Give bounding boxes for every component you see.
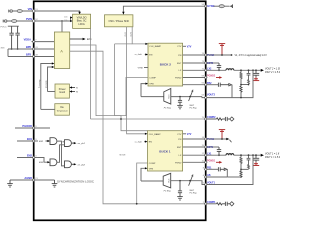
svg-text:EN2: EN2 (27, 153, 33, 157)
arrow g4 out (74, 163, 77, 165)
wire PVIN internal (34, 18, 72, 22)
trapezoid FC regulator ch1 (164, 89, 171, 105)
arrow g2 out (74, 142, 77, 144)
svg-text:Temperature: Temperature (56, 110, 68, 113)
svg-text:COMP1: COMP1 (207, 201, 216, 204)
wire ch2 FB row (206, 168, 218, 170)
arrow EN2 into gate (38, 158, 48, 163)
junction V1 text dot (231, 54, 233, 56)
svg-text:CLK2: CLK2 (131, 32, 133, 37)
junction C1/BP6 (11, 48, 13, 50)
wire RT1 (osc to buck2 clk) (127, 27, 146, 134)
arrow PG input 1 (69, 86, 72, 88)
svg-text:NiST: NiST (190, 105, 195, 107)
svg-text:V2: V2 (76, 91, 78, 93)
svg-text:en_ph1: en_ph1 (78, 143, 86, 145)
svg-text:VFB: VFB (149, 84, 154, 86)
wire ch2 PVIN ext (206, 138, 227, 140)
gate U5 AND (65, 161, 72, 168)
svg-text:VOUT 1 = 1.8 V: VOUT 1 = 1.8 V (265, 154, 280, 156)
ground Creg ch2 (177, 197, 183, 200)
junction sense (252, 69, 254, 71)
svg-text:Trimming: Trimming (39, 80, 41, 88)
wire PVIN down to block A (61, 21, 63, 32)
svg-text:PVIN: PVIN (26, 17, 32, 21)
power flag V1 ch1 (219, 44, 225, 55)
svg-text:COMP: COMP (149, 163, 156, 165)
wire ENx output (70, 38, 83, 40)
block Die Temperature (55, 104, 70, 116)
wire EN2 internal (34, 157, 38, 159)
capacitor Cfb ch1 (218, 83, 228, 87)
wire BST ext ch2 (206, 146, 219, 148)
wire PGOOD internal (34, 127, 50, 129)
ground Creg ch1 (177, 105, 183, 108)
ground left (7, 180, 13, 187)
wire divider bottom ch2 (227, 176, 241, 178)
svg-text:AGND: AGND (24, 176, 32, 180)
wire g2 second input (63, 141, 65, 143)
svg-text:SYNCHRONIZATION LOGIC: SYNCHRONIZATION LOGIC (57, 180, 94, 183)
svg-text:FC Reg: FC Reg (190, 193, 198, 195)
junction divider bottom ch2 (240, 176, 242, 178)
arrow into LDO left pin 1 (70, 16, 72, 18)
inductor L1 (226, 69, 234, 71)
junction tap (240, 84, 242, 86)
resistor divider R3 R4 ch2 (240, 155, 242, 177)
svg-text:CLK_RAMP: CLK_RAMP (149, 133, 161, 136)
svg-text:LX1: LX1 (207, 152, 212, 155)
wire die temp status to A (41, 64, 52, 110)
junction BST cap LX ch2 (218, 154, 220, 156)
power flag PGND down ch2 (253, 162, 259, 165)
wire cff tap join ch2 (241, 168, 249, 170)
svg-text:FC Reg: FC Reg (164, 191, 172, 193)
junction clk row (120, 118, 122, 120)
capacitor CBST2 (217, 147, 221, 155)
junction BST cap LX (218, 69, 220, 71)
svg-text:MODE: MODE (120, 155, 127, 157)
wire VDDA to block A (34, 41, 55, 43)
wire ch1 PVIN external (206, 54, 231, 56)
wire FB ext (206, 84, 218, 86)
arrow PGND red ch1 (216, 77, 220, 79)
junction divider bottom ch1 (240, 97, 242, 99)
wire trap out ch1 (171, 96, 202, 98)
svg-text:ss_fault: ss_fault (135, 53, 142, 56)
junction cap ch1 (179, 96, 181, 98)
svg-text:V7V: V7V (187, 45, 192, 48)
wire EN2 pin (17, 157, 34, 159)
wire BP3 (8, 56, 34, 58)
connector J1 pin (9, 10, 13, 13)
wire AGND internal (34, 179, 55, 181)
svg-text:ENx: ENx (87, 38, 92, 41)
junction divider (240, 69, 242, 71)
junction PVIN flag (221, 54, 223, 56)
arrow ch1 VFB (145, 83, 148, 85)
svg-text:FC Reg: FC Reg (190, 108, 198, 110)
arrow into LDO top (78, 12, 80, 15)
arrow into LDO left pin 2 (70, 20, 72, 22)
svg-text:BST: BST (177, 63, 182, 65)
junction cap ch2 (179, 180, 181, 182)
junction sense ch2 (252, 154, 254, 156)
junction adj ch2 (189, 180, 191, 182)
svg-text:EN: EN (149, 142, 152, 144)
wire g2 out (71, 142, 74, 144)
wire ch1 trap input (141, 96, 164, 98)
IC body U1 (34, 1, 206, 220)
svg-text:EN1: EN1 (27, 137, 33, 141)
capacitor Cout1 (253, 70, 259, 77)
tick V1 ch2 (230, 140, 232, 143)
wire FB vertical to sense (231, 85, 233, 98)
ferrite bead FB2 (12, 20, 17, 23)
svg-text:V1, 4.5 V to approximately 14: V1, 4.5 V to approximately 14 V (235, 54, 268, 57)
gate U2 AND (50, 138, 57, 145)
wire PG input 2 (72, 91, 75, 93)
power flag V1 ch2 (219, 130, 225, 139)
block Power Good (55, 84, 69, 98)
arrow VOUT2 (261, 69, 264, 72)
wire SYNC (123, 6, 205, 13)
wire FB vertical ch2 (226, 169, 228, 177)
capacitor C2 (15, 26, 19, 49)
arrow ENx (83, 38, 86, 41)
svg-text:BUCK 2: BUCK 2 (160, 62, 171, 66)
connector J2 pin (3, 20, 7, 23)
arrow FB to divider (229, 84, 232, 86)
RC network COMP2 (217, 202, 230, 206)
wire SYNC external (214, 5, 230, 7)
junction cff ch2 (248, 154, 250, 156)
arrow ch1 EN (144, 54, 147, 56)
wire ch2 BST row (183, 146, 206, 148)
terminal diamond COMP2 (230, 202, 234, 206)
svg-text:V1: V1 (76, 87, 78, 89)
svg-text:VTRK: VTRK (138, 67, 144, 69)
gate U4 AND (50, 159, 57, 166)
svg-text:BST1: BST1 (207, 146, 214, 149)
wire EN1 pin (17, 140, 34, 142)
wire PG left (48, 91, 56, 93)
svg-text:AB: AB (207, 174, 211, 177)
wire divider return ch2 (206, 176, 228, 178)
trapezoid FC regulator ch2 (163, 173, 171, 188)
svg-text:COMP: COMP (149, 77, 156, 79)
junction tap ch2 (240, 169, 242, 171)
wire ch2 LX row (183, 154, 226, 156)
svg-text:FC Reg: FC Reg (164, 108, 172, 110)
arrow ch2 VFB (145, 167, 148, 169)
svg-text:FB1: FB1 (207, 166, 212, 169)
capacitor Cout2 (253, 155, 259, 162)
svg-text:PN: PN (178, 139, 181, 141)
svg-text:PVCC: PVCC (1, 26, 7, 28)
RC network COMP1 (206, 117, 230, 121)
block BUCK2 (channel 1) (148, 43, 183, 86)
ferrite bead FB1 (17, 10, 22, 13)
wire BP6 (8, 48, 34, 50)
capacitor C1 (9, 26, 13, 49)
wire g3 out to g2 cross (57, 145, 65, 163)
inductor L2 (226, 154, 234, 156)
wire PVIN input (7, 20, 34, 22)
wire ch1 PVIN row (183, 54, 206, 56)
wire ch1 VFB loop (141, 84, 145, 97)
arrow into OSC top (122, 12, 124, 15)
wire cff tap join (241, 84, 249, 86)
wire COMP2 branch (137, 163, 148, 204)
svg-text:V7V: V7V (177, 134, 182, 136)
svg-text:BP6: BP6 (26, 45, 32, 49)
arrow EN1 into gate (46, 140, 49, 142)
svg-text:Good: Good (59, 91, 66, 94)
arrow ch1 CLK (145, 43, 148, 45)
svg-text:IOUT 2 = 1.5 A: IOUT 2 = 1.5 A (265, 71, 280, 74)
wire g1 out to g3 cross (57, 141, 65, 166)
wire VDDA pin stub (32, 41, 34, 43)
svg-text:V7V: V7V (177, 46, 182, 48)
svg-text:PGND: PGND (175, 77, 182, 79)
junction C2/BP6 (17, 48, 19, 50)
svg-text:CLK_RAMP: CLK_RAMP (149, 45, 161, 48)
wire g4 out (71, 163, 74, 165)
svg-text:CLK1: CLK1 (125, 32, 127, 37)
svg-text:VOUT 2 = 1.05 V: VOUT 2 = 1.05 V (265, 69, 280, 71)
wire VIN internal to LDO (34, 11, 80, 13)
wire PGOOD pin (15, 127, 34, 129)
wire A out to COMP2 loop (70, 51, 206, 204)
junction PVIN branch (61, 20, 63, 22)
junction cff bottom ch1 (248, 84, 250, 86)
wire ch2 trap input (141, 180, 163, 182)
junction cout (255, 69, 257, 71)
svg-text:PGND1: PGND1 (207, 159, 216, 162)
wire ch1 PGND row (183, 77, 206, 79)
wire ch2 V7V stub (183, 133, 186, 135)
wire trap out ch2 (171, 181, 206, 185)
wire ch2 VFB loop (141, 168, 145, 181)
wire ch1 V7V stub (183, 45, 186, 47)
wire COMP1 row (91, 118, 206, 120)
arrow FB divider ch2 (224, 168, 227, 170)
wire RT2 (osc to buck1 clk) (132, 27, 146, 44)
wire VTRK ch1 (144, 67, 148, 69)
junction PVIN flag ch2 (221, 138, 223, 140)
arrow PGND red ch2 (216, 161, 220, 163)
svg-text:PVIN2: PVIN2 (207, 54, 215, 57)
svg-text:BST: BST (177, 147, 182, 149)
wire ch1 FB row (183, 84, 206, 86)
svg-text:A: A (60, 49, 63, 54)
svg-text:BP3: BP3 (26, 53, 32, 57)
ferrite bead FB3 (219, 5, 224, 8)
gate U3 AND (65, 140, 72, 147)
block VIN/LDO (73, 14, 91, 28)
svg-text:PVIN1: PVIN1 (207, 138, 215, 141)
wire BP6 to block A (34, 48, 55, 50)
svg-text:en_ph2: en_ph2 (78, 164, 86, 166)
capacitor Cfb ch2 (218, 167, 224, 171)
wire ch2 VOUT rail (234, 154, 261, 156)
wire VIN input (13, 10, 34, 12)
terminal diamond COMP1 (230, 117, 234, 121)
svg-text:EN: EN (149, 54, 152, 56)
wire sense ext ch1 (206, 70, 253, 97)
svg-text:LDOs: LDOs (78, 23, 85, 26)
terminal SYNC (230, 5, 233, 8)
wire BST ext (206, 62, 219, 64)
ground internal (52, 180, 58, 187)
svg-text:VOUT2: VOUT2 (207, 94, 216, 97)
arrow V1 ch2 (226, 138, 229, 141)
junction adj ch1 (189, 96, 191, 98)
wire die temp left (41, 108, 55, 110)
wire COMP2 row (206, 203, 217, 205)
svg-text:LX2: LX2 (207, 67, 212, 70)
wire ch1 LX row (183, 69, 226, 71)
arrow into A pin (52, 62, 55, 64)
svg-text:BST2: BST2 (207, 62, 214, 65)
wire PG input 1 (72, 87, 75, 89)
pin diamonds on IC edges (32, 5, 207, 205)
svg-text:NiST: NiST (190, 190, 195, 192)
block OSC / Phase Shift (105, 15, 133, 27)
adjust arrow ch1 (189, 91, 193, 101)
svg-text:PN: PN (178, 55, 181, 57)
svg-text:ss_fault: ss_fault (135, 140, 142, 143)
capacitor CBST1 (217, 63, 221, 70)
svg-text:IOUT 1 = 1.5 A: IOUT 1 = 1.5 A (265, 156, 280, 159)
svg-text:BUCK 1: BUCK 1 (159, 150, 170, 154)
svg-text:PGND2: PGND2 (207, 75, 216, 78)
capacitor Creg ch1 (178, 97, 182, 106)
adjust arrow ch2 (189, 176, 193, 186)
svg-text:VIN: VIN (28, 7, 32, 11)
svg-text:VDDA: VDDA (24, 38, 31, 42)
arrow ch2 EN (143, 141, 146, 143)
wire BP3 to block A (34, 56, 55, 58)
wire trap out jog ch1 (202, 97, 206, 98)
wire AGND (10, 179, 34, 181)
arrow into A pin 2 (52, 66, 55, 68)
arrow ch2 CLK (145, 133, 148, 135)
junction divider ch2 (240, 154, 242, 156)
wire ch2 PVIN row (183, 138, 206, 140)
arrow VOUT1 (261, 154, 264, 157)
junction cout ch2 (255, 154, 257, 156)
capacitor Cff ch1 (247, 70, 251, 84)
wire V7V rail vertical (90, 28, 92, 119)
wire sense ext ch2 (206, 155, 253, 184)
svg-text:PGOOD: PGOOD (22, 124, 32, 128)
junction COMP2 branch (136, 203, 138, 205)
capacitor Cff ch2 (247, 155, 251, 169)
wire ch1 BST row (183, 62, 206, 64)
svg-text:VFB: VFB (149, 168, 154, 170)
block A (analog core) (54, 32, 69, 69)
svg-text:PGOOD: PGOOD (46, 80, 48, 88)
svg-text:OSC / Phase Shift: OSC / Phase Shift (109, 20, 130, 23)
resistor divider R1 R2 ch1 (240, 70, 242, 97)
junction cff (248, 69, 250, 71)
wire ch2 PGND row (183, 161, 206, 163)
block BUCK1 (channel 2) (148, 131, 183, 171)
power flag PGND down ch1 (253, 77, 259, 80)
capacitor Creg ch2 (178, 181, 182, 197)
wire EN1 internal (34, 140, 38, 142)
wire A out to COMP1 loop (70, 45, 148, 116)
wire clk routing (115, 44, 148, 131)
wire power good status to A (48, 67, 53, 92)
svg-text:PGND: PGND (175, 162, 182, 164)
arrow PG input 2 (69, 90, 72, 92)
wire ch1 VOUT rail (234, 69, 261, 71)
svg-text:V7V: V7V (187, 133, 192, 136)
